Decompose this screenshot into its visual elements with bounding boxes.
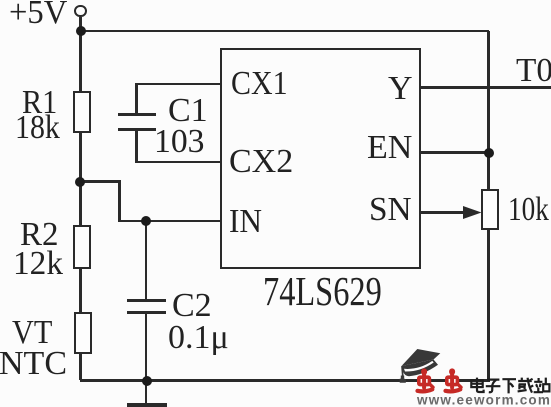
- svg-text:www.eeworm.com: www.eeworm.com: [416, 393, 551, 407]
